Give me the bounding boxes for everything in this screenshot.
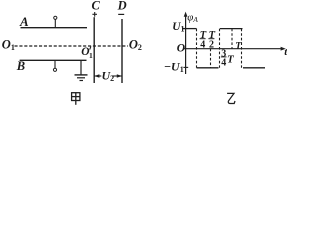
dashed marker T/2	[210, 49, 212, 68]
terminal circle on plate A	[54, 16, 57, 19]
plate A	[21, 27, 88, 29]
terminal stem under plate B	[54, 60, 56, 68]
ground bar 2	[77, 77, 85, 79]
caption yi (乙) drawn	[227, 93, 235, 103]
svg-text:A: A	[19, 14, 29, 29]
svg-text:φA: φA	[187, 12, 198, 25]
fraction bar T/4	[200, 38, 206, 40]
svg-text:O2: O2	[129, 38, 142, 53]
plate D	[121, 19, 123, 83]
low segment 2	[243, 67, 265, 69]
svg-text:O1: O1	[2, 38, 15, 53]
plate B	[20, 59, 87, 61]
phi axis arrowhead	[184, 12, 188, 17]
svg-text:B: B	[16, 59, 25, 73]
ground stem	[80, 60, 82, 74]
center axis O1-O2 dashed	[15, 45, 129, 47]
svg-text:O: O	[177, 43, 185, 55]
svg-text:4: 4	[221, 58, 226, 69]
high segment 2	[220, 28, 243, 30]
svg-text:U1: U1	[172, 21, 184, 34]
ground bar 1	[75, 74, 88, 76]
fraction bar T/2	[208, 38, 214, 40]
svg-text:t: t	[284, 46, 287, 58]
ground bar 3	[80, 80, 84, 82]
svg-text:T: T	[227, 54, 235, 66]
U2 arrow left segment	[94, 75, 101, 77]
svg-text:4: 4	[200, 39, 205, 50]
U2 arrowhead left	[94, 74, 99, 78]
terminal stem on plate A	[54, 19, 56, 28]
t axis (horizontal)	[184, 48, 284, 50]
svg-text:C: C	[92, 0, 101, 13]
U2 arrowhead right	[117, 74, 122, 78]
low segment 1	[197, 67, 219, 69]
dashed marker T	[241, 29, 243, 68]
svg-text:D: D	[117, 0, 127, 13]
U2 arrow right segment	[112, 75, 122, 77]
svg-text:U2: U2	[102, 69, 115, 84]
plus sign of plate C	[92, 13, 97, 15]
plate C	[93, 17, 95, 83]
caption jia (甲) drawn	[72, 93, 80, 105]
dashed marker T/4	[196, 29, 198, 68]
fraction bar 3/4	[221, 56, 227, 58]
dashed marker 3T/4	[231, 29, 233, 49]
U1 tick + high segment 1	[182, 28, 197, 30]
-U1 tick	[183, 66, 188, 68]
minus sign of plate D	[118, 13, 124, 15]
svg-text:2: 2	[209, 39, 214, 50]
t axis arrowhead	[281, 47, 286, 51]
phi axis (vertical)	[185, 14, 187, 74]
svg-text:−U1: −U1	[164, 59, 184, 74]
dashed marker rise at low1 end	[219, 29, 221, 68]
svg-text:1: 1	[89, 51, 93, 60]
terminal circle under plate B	[53, 68, 56, 71]
svg-text:T: T	[235, 41, 242, 52]
